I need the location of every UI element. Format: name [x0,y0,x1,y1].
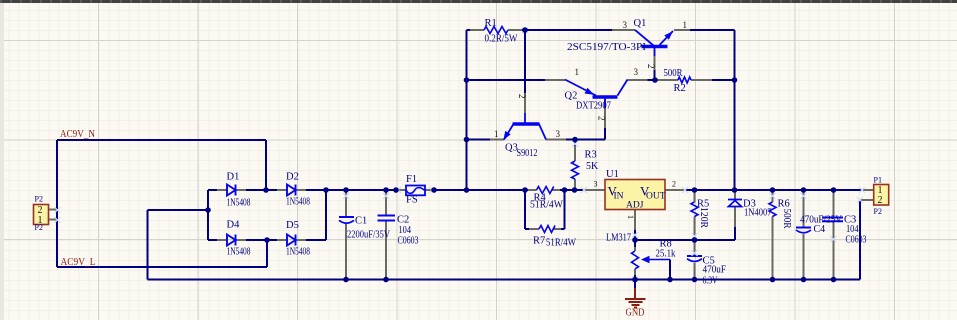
svg-text:R7: R7 [533,236,545,247]
svg-text:D2: D2 [286,172,299,183]
svg-text:3: 3 [634,67,639,77]
svg-text:1N5408: 1N5408 [227,247,251,258]
svg-text:R3: R3 [585,150,597,161]
svg-text:3: 3 [556,129,561,139]
svg-text:1N5408: 1N5408 [286,197,310,208]
svg-text:D1: D1 [227,172,240,183]
svg-text:ADJ: ADJ [626,201,644,211]
svg-text:AC9V_L: AC9V_L [61,257,96,268]
svg-text:DXT2907: DXT2907 [576,101,611,112]
svg-text:6.3V: 6.3V [703,276,719,287]
svg-text:3: 3 [623,20,628,30]
svg-text:470uF: 470uF [703,265,727,276]
svg-text:500R: 500R [664,68,683,79]
svg-text:500R: 500R [781,209,792,229]
svg-text:LM317: LM317 [606,233,631,244]
svg-text:1: 1 [683,20,688,30]
svg-text:D5: D5 [286,220,299,231]
svg-text:120R: 120R [698,207,709,228]
svg-text:P1: P1 [874,176,882,185]
svg-text:D4: D4 [227,220,241,231]
svg-text:2: 2 [878,195,883,206]
svg-text:Q1: Q1 [634,18,647,29]
svg-text:104: 104 [399,225,412,236]
svg-text:1N5408: 1N5408 [227,198,251,209]
svg-text:2: 2 [672,180,676,189]
svg-text:C4: C4 [814,224,826,235]
svg-text:1N5408: 1N5408 [286,247,310,258]
svg-text:C2: C2 [397,215,409,226]
svg-text:2: 2 [517,94,527,99]
svg-text:1: 1 [626,215,635,219]
svg-text:104: 104 [846,224,859,235]
svg-text:2200uF/35V: 2200uF/35V [347,230,391,241]
svg-text:51R/4W: 51R/4W [546,238,576,249]
svg-text:2SC5197/TO-3PI: 2SC5197/TO-3PI [567,42,646,53]
svg-text:GND: GND [626,308,645,319]
svg-text:2: 2 [597,116,607,121]
svg-text:P2: P2 [35,195,43,204]
svg-text:IN: IN [614,192,624,202]
svg-text:C0603: C0603 [846,235,867,246]
svg-text:R1: R1 [485,18,497,29]
svg-text:C0603: C0603 [398,236,419,247]
svg-text:AC9V_N: AC9V_N [60,129,95,140]
svg-text:2: 2 [646,64,656,69]
svg-text:C1: C1 [355,216,367,227]
svg-text:1: 1 [494,129,499,139]
svg-text:FS: FS [406,195,418,206]
svg-text:1: 1 [575,67,580,77]
svg-text:5K: 5K [586,161,599,172]
svg-text:25.1k: 25.1k [656,249,676,260]
svg-text:S9012: S9012 [517,148,538,159]
svg-text:1: 1 [38,215,43,226]
svg-text:0.2R/5W: 0.2R/5W [485,34,519,45]
svg-text:OUT: OUT [646,192,666,202]
svg-text:3: 3 [594,180,598,189]
svg-text:51R/4W: 51R/4W [530,200,564,211]
svg-text:R2: R2 [674,83,686,94]
svg-text:F1: F1 [406,174,417,185]
svg-text:1N4007: 1N4007 [744,208,772,219]
svg-text:U1: U1 [606,169,619,180]
svg-text:P2: P2 [874,207,882,216]
